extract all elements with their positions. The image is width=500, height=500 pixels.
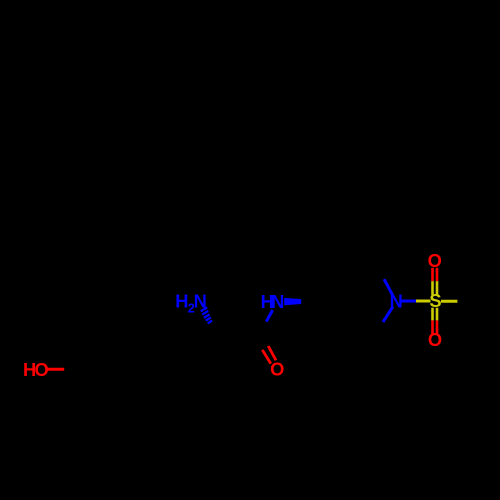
double bond S=O (top) — [433, 268, 438, 295]
svg-text:O: O — [270, 358, 284, 379]
atom label HN (amide) — [261, 291, 285, 312]
double bond S=O (bottom) — [433, 308, 438, 335]
svg-text:H: H — [175, 290, 188, 311]
double bond C=O (carbonyl) red halves — [262, 346, 276, 364]
bond N(amide)-C(carbonyl) half — [266, 310, 272, 322]
solid wedge bond C3(piperidine)-NH half — [284, 298, 301, 305]
bond O-C(aryl) hydroxyl half — [47, 368, 64, 371]
bond S-CH3 yellow half — [441, 300, 457, 303]
hashed wedge bond C(alpha)-NH2 — [201, 307, 212, 323]
svg-text:N: N — [271, 291, 284, 312]
svg-text:O: O — [428, 329, 442, 350]
bond N-S blue half — [401, 300, 416, 303]
svg-text:O: O — [34, 359, 48, 380]
atom label H2N (amine) — [175, 290, 207, 315]
svg-text:O: O — [428, 250, 442, 271]
bond N1-C6 piperidine half — [383, 307, 393, 322]
bond N1-C2 piperidine half — [384, 279, 393, 296]
bond N-S yellow half — [416, 300, 431, 303]
